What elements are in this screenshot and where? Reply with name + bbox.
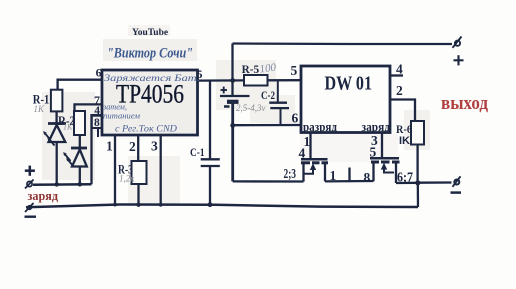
svg-text:IK: IK xyxy=(399,135,410,147)
svg-text:2,5-4,3v: 2,5-4,3v xyxy=(236,103,266,113)
svg-text:2: 2 xyxy=(129,139,136,154)
svg-text:DW 01: DW 01 xyxy=(325,74,373,95)
wire pin2 down xyxy=(137,135,139,161)
svg-text:3: 3 xyxy=(151,139,158,154)
svg-text:C-2: C-2 xyxy=(261,88,275,102)
svg-text:с Рег.Ток CND: с Рег.Ток CND xyxy=(115,125,177,135)
svg-text:1: 1 xyxy=(330,168,337,183)
output plus terminal xyxy=(453,37,464,66)
wire pin1 down xyxy=(114,135,116,205)
wire junction to output minus terminal xyxy=(418,181,452,183)
node junction pin5 rail xyxy=(230,78,235,83)
node D1 cathode junction xyxy=(55,182,59,186)
svg-text:Заряжается Бат.: Заряжается Бат. xyxy=(104,73,200,83)
svg-text:6;7: 6;7 xyxy=(397,170,413,185)
resistor R1 xyxy=(33,90,63,114)
LED D2 arrows xyxy=(64,153,70,161)
svg-text:выход: выход xyxy=(441,93,488,114)
node drain tick xyxy=(348,168,350,182)
svg-text:1: 1 xyxy=(106,139,113,154)
svg-text:заряд: заряд xyxy=(28,189,59,203)
pin 8 boxed xyxy=(92,116,102,137)
wire bottom ground rail xyxy=(26,205,418,208)
svg-text:R-6: R-6 xyxy=(396,122,412,136)
node junction battery/DW01 gnd xyxy=(230,123,235,128)
resistor R5 xyxy=(242,61,278,85)
LED D1 arrows xyxy=(44,132,50,140)
IC U1 TP4056 xyxy=(102,70,200,135)
svg-text:R-5: R-5 xyxy=(242,62,260,76)
capacitor C1 xyxy=(190,81,220,205)
wire plus input rail xyxy=(33,183,92,186)
input minus terminal xyxy=(25,203,37,218)
node pin3 ground junction xyxy=(159,203,163,207)
wire pin3 down xyxy=(160,135,162,205)
svg-text:1К: 1К xyxy=(34,104,46,114)
svg-text:разряд: разряд xyxy=(303,120,338,134)
wire main vertical from top rail to battery xyxy=(231,44,233,97)
DW01 pin 4 stub xyxy=(390,62,403,77)
DW01 pin 2 wire to R6 xyxy=(390,83,415,121)
wire junction down to ground rail xyxy=(417,183,420,207)
svg-text:8: 8 xyxy=(94,117,100,129)
node C1 ground junction xyxy=(208,202,213,207)
svg-text:питанием: питанием xyxy=(103,111,141,121)
wire pin4/8 to plus rail xyxy=(92,115,103,184)
resistor R3 xyxy=(118,161,147,205)
node pin1 ground junction xyxy=(113,203,117,207)
svg-text:2;3: 2;3 xyxy=(284,166,297,181)
wire top positive rail xyxy=(233,42,453,45)
svg-text:C-1: C-1 xyxy=(190,145,205,159)
scan shading patches xyxy=(42,25,430,204)
wire pin6 to R1 xyxy=(58,80,102,90)
svg-text:6: 6 xyxy=(292,111,299,126)
LED D1 xyxy=(43,111,66,184)
wire TP4056 pin5 to R-5 to DW01 pin5 xyxy=(198,79,245,81)
svg-text:1К: 1К xyxy=(63,123,73,132)
svg-text:100: 100 xyxy=(259,61,277,75)
wire Q2 source to output junction xyxy=(396,182,418,184)
node R3 ground junction xyxy=(136,203,140,207)
IC U2 DW01 xyxy=(301,66,391,134)
wire battery minus down xyxy=(231,103,234,181)
wire DW01 pin6 xyxy=(233,124,301,126)
resistor R6 xyxy=(396,121,424,183)
svg-text:1,2к: 1,2к xyxy=(119,174,135,184)
svg-text:"Виктор Сочи": "Виктор Сочи" xyxy=(107,46,193,62)
capacitor C2 xyxy=(261,80,289,125)
input plus terminal xyxy=(25,166,35,189)
svg-text:2: 2 xyxy=(396,83,403,98)
svg-text:6: 6 xyxy=(96,66,102,80)
wire Q1 drain to Q2 drain xyxy=(325,180,374,183)
svg-text:заряд: заряд xyxy=(362,120,391,134)
svg-text:YouTube: YouTube xyxy=(132,28,168,38)
LED D2 xyxy=(63,135,87,184)
transistor Q2 charge MOSFET xyxy=(370,133,400,184)
svg-text:8: 8 xyxy=(364,170,371,185)
transistor Q1 discharge MOSFET xyxy=(299,133,329,182)
output minus terminal xyxy=(451,176,462,192)
svg-text:5: 5 xyxy=(291,63,298,78)
battery BT1 xyxy=(220,87,266,113)
svg-text:5: 5 xyxy=(197,67,203,81)
resistor R2 xyxy=(58,111,85,135)
node D2 cathode junction xyxy=(78,182,82,186)
wire pin7 to R2 xyxy=(75,104,103,111)
svg-text:4: 4 xyxy=(396,62,403,77)
wire to Q1 source 2;3 xyxy=(233,180,304,182)
node output junction xyxy=(415,180,420,185)
